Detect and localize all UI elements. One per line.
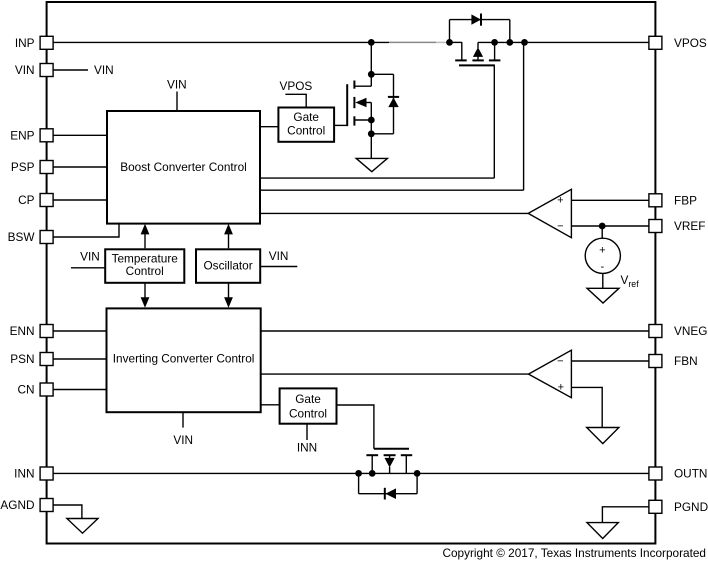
- svg-text:Oscillator: Oscillator: [204, 259, 253, 273]
- pin label VPOS: [674, 36, 707, 50]
- node dot Q1 diode return: [368, 130, 375, 137]
- pin label BSW: [8, 230, 36, 244]
- svg-text:-: -: [600, 261, 604, 273]
- pin OUTN: [649, 467, 662, 480]
- node dot rail-D3 left: [355, 470, 362, 477]
- wire ENP stub: [53, 134, 107, 136]
- block U6 Gate Control (inverting): [280, 388, 337, 423]
- node dot Q1 source: [368, 117, 375, 124]
- diode D3 bypass (bottom): [359, 473, 418, 499]
- transistor Q1 boost NMOS switch: [347, 42, 371, 126]
- node dot rail-sense: [521, 39, 528, 46]
- pin label FBP: [674, 194, 697, 208]
- svg-text:VIN: VIN: [94, 63, 114, 77]
- svg-text:−: −: [557, 221, 563, 233]
- transistor Q2 body-diode arrow: [473, 42, 483, 59]
- wire Q1 source to ground: [370, 120, 372, 158]
- wire U6 to Q3 gate: [337, 405, 374, 449]
- block U1 Boost Converter Control: [107, 111, 260, 224]
- pin label FBN: [674, 354, 698, 368]
- pin label VIN: [15, 63, 35, 77]
- net label VIN (at VIN pin): [53, 63, 114, 77]
- value label Vref: [621, 273, 640, 289]
- svg-text:CN: CN: [17, 383, 34, 397]
- pin label PSN: [10, 352, 34, 366]
- svg-text:PSN: PSN: [10, 352, 34, 366]
- ground GND5 (PGND): [587, 523, 618, 539]
- wire CP stub: [53, 199, 107, 201]
- svg-text:VPOS: VPOS: [280, 79, 313, 93]
- svg-text:VREF: VREF: [674, 219, 705, 233]
- wire arrow Temperature Control to Inverting: [141, 283, 150, 308]
- wire FBN to A2 - input: [571, 360, 649, 362]
- voltage source Vref: [585, 226, 620, 288]
- wire Boost to Gate Control: [261, 126, 279, 128]
- svg-text:VIN: VIN: [167, 78, 187, 92]
- pin VIN: [40, 64, 53, 77]
- transistor Q3 inverting NMOS switch: [366, 449, 412, 474]
- wire INN/OUTN rail: [53, 472, 649, 474]
- net label VIN (left of temperature control): [71, 250, 105, 268]
- op-amp A1 boost error comparator: [528, 189, 571, 237]
- wire INP rail (gray segment): [389, 41, 448, 43]
- svg-text:Boost Converter Control: Boost Converter Control: [120, 160, 247, 174]
- wire PSN stub: [53, 358, 106, 360]
- svg-text:ENN: ENN: [10, 324, 35, 338]
- svg-text:VIN: VIN: [173, 433, 193, 447]
- pin label VNEG: [674, 324, 707, 338]
- svg-text:PGND: PGND: [674, 500, 708, 514]
- wire VPOS sense (to Boost control): [261, 42, 524, 190]
- node dot rail-D1 anode: [446, 39, 453, 46]
- svg-text:FBP: FBP: [674, 194, 697, 208]
- svg-text:Control: Control: [287, 124, 325, 138]
- ground GND1 (under Q1): [356, 158, 387, 171]
- pin INP: [40, 36, 53, 49]
- node dot rail-Q2 drain: [491, 39, 498, 46]
- svg-text:+: +: [557, 194, 563, 206]
- svg-text:VIN: VIN: [269, 249, 289, 263]
- block U3 Oscillator: [196, 249, 260, 282]
- pin ENP: [40, 129, 53, 142]
- pin AGND: [40, 499, 53, 512]
- pin label AGND: [0, 498, 34, 512]
- svg-text:Gate: Gate: [295, 392, 321, 406]
- wire INP rail to Q2 source: [448, 42, 462, 60]
- svg-text:INN: INN: [14, 467, 34, 481]
- wire arrow Temperature Control to Boost: [141, 224, 150, 249]
- svg-text:Inverting Converter Control: Inverting Converter Control: [113, 352, 255, 366]
- pin BSW: [40, 231, 53, 244]
- svg-text:INP: INP: [15, 36, 35, 50]
- svg-text:BSW: BSW: [8, 230, 36, 244]
- ground GND2 (under Vref): [587, 288, 619, 303]
- svg-text:VIN: VIN: [80, 250, 100, 264]
- pin label INP: [15, 36, 35, 50]
- wire INP rail (left black segment): [53, 41, 389, 43]
- svg-text:Control: Control: [289, 406, 327, 420]
- wire AGND to ground: [53, 505, 82, 519]
- svg-text:INN: INN: [297, 441, 317, 455]
- ground GND4 (AGND): [67, 519, 98, 534]
- pin FBN: [649, 355, 662, 368]
- svg-text:−: −: [557, 356, 563, 368]
- block U5 Gate Control (boost): [278, 108, 334, 142]
- node dot rail-Q1: [368, 39, 375, 46]
- net label INN (below gate control U6): [297, 424, 317, 455]
- node dot rail-D3 right: [414, 470, 421, 477]
- wire Q1 gate lead: [334, 124, 347, 126]
- wire VNEG line: [261, 330, 649, 332]
- svg-text:AGND: AGND: [0, 498, 34, 512]
- pin PGND: [649, 500, 662, 513]
- pin VPOS: [649, 36, 662, 49]
- pin label CN: [17, 383, 34, 397]
- svg-text:+: +: [599, 244, 605, 256]
- ground GND3 (under A2): [587, 428, 619, 444]
- copyright note: [442, 546, 706, 560]
- net label VIN (above boost block): [167, 78, 187, 112]
- diode D1 bypass (top): [450, 14, 510, 43]
- svg-text:+: +: [558, 381, 564, 393]
- wire A2 + input to ground: [571, 387, 602, 427]
- pin label CP: [18, 193, 35, 207]
- wire PSP stub: [53, 166, 107, 168]
- pin CP: [40, 194, 53, 207]
- wire arrow Oscillator to Boost: [224, 224, 233, 249]
- pin VREF: [649, 220, 662, 233]
- svg-text:CP: CP: [18, 193, 35, 207]
- wire BSW to boost block: [53, 223, 119, 237]
- pin label ENP: [10, 129, 34, 143]
- node dot rail-Q3 source: [369, 470, 376, 477]
- svg-text:Gate: Gate: [293, 110, 319, 124]
- svg-text:OUTN: OUTN: [674, 467, 707, 481]
- pin PSN: [40, 353, 53, 366]
- pin ENN: [40, 325, 53, 338]
- pin label INN: [14, 467, 34, 481]
- pin label ENN: [10, 324, 35, 338]
- wire Q2 gate drive (to Boost control): [261, 65, 495, 178]
- node dot rail-D1 cathode: [506, 39, 513, 46]
- node dot VREF junction: [599, 223, 606, 230]
- pin CN: [40, 383, 53, 396]
- pin label VREF: [674, 219, 705, 233]
- wire inverting block to gate control U6: [261, 404, 280, 406]
- svg-text:Control: Control: [126, 264, 164, 278]
- wire ENN stub: [53, 330, 106, 332]
- svg-text:Temperature: Temperature: [112, 251, 179, 265]
- wire A2 output to inverting block: [261, 373, 529, 375]
- wire A1 output to boost block: [261, 212, 529, 214]
- svg-text:FBN: FBN: [674, 354, 698, 368]
- diode D2 body diode of Q1: [371, 74, 399, 134]
- block U2 Temperature Control: [105, 249, 184, 282]
- pin VNEG: [649, 325, 662, 338]
- pin PSP: [40, 161, 53, 174]
- block U4 Inverting Converter Control: [107, 308, 261, 412]
- transistor Q2 rectifier PMOS (channel bars and gate): [455, 60, 500, 65]
- pin label PSP: [11, 160, 35, 174]
- wire VPOS rail (Q2 drain side): [478, 42, 649, 59]
- svg-text:PSP: PSP: [11, 160, 35, 174]
- wire arrow Oscillator to Inverting: [224, 283, 233, 308]
- svg-text:VIN: VIN: [15, 63, 35, 77]
- svg-text:VPOS: VPOS: [674, 36, 707, 50]
- pin label PGND: [674, 500, 708, 514]
- svg-text:Copyright © 2017, Texas Instru: Copyright © 2017, Texas Instruments Inco…: [442, 546, 706, 560]
- svg-text:ENP: ENP: [10, 129, 34, 143]
- wire FBP to A1 + input: [572, 199, 649, 201]
- wire PGND to ground: [602, 507, 649, 523]
- net label VIN (below inverting block): [173, 412, 193, 447]
- pin INN: [40, 467, 53, 480]
- net label VPOS (above gate control): [280, 79, 313, 108]
- svg-text:VNEG: VNEG: [674, 324, 707, 338]
- wire CN stub: [53, 389, 106, 391]
- node dot Q1 drain junction: [368, 71, 375, 78]
- wire VREF to A1 - input: [572, 225, 649, 227]
- pin label OUTN: [674, 467, 707, 481]
- net label VIN (right of oscillator): [260, 249, 297, 267]
- op-amp A2 inverting error comparator: [529, 350, 572, 398]
- pin FBP: [649, 194, 662, 207]
